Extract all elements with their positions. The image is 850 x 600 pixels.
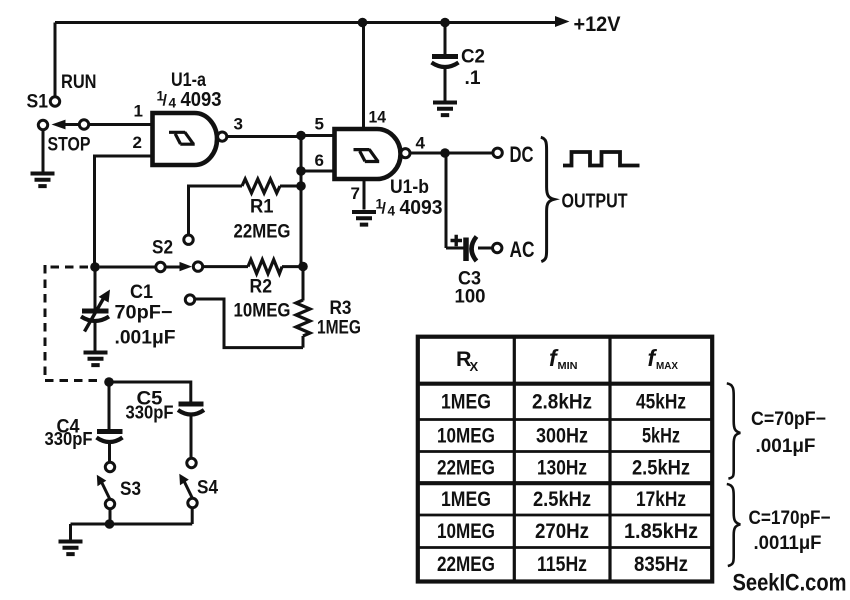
svg-text:5kHz: 5kHz bbox=[642, 425, 680, 448]
svg-text:4: 4 bbox=[169, 96, 177, 111]
svg-text:10MEG: 10MEG bbox=[234, 301, 291, 322]
svg-text:S2: S2 bbox=[152, 236, 173, 258]
svg-text:1MEG: 1MEG bbox=[441, 488, 491, 511]
svg-text:C2: C2 bbox=[461, 47, 485, 68]
svg-text:U1-b: U1-b bbox=[390, 177, 429, 198]
svg-text:14: 14 bbox=[369, 108, 387, 127]
svg-text:4: 4 bbox=[388, 204, 396, 219]
svg-text:2.5kHz: 2.5kHz bbox=[533, 488, 591, 511]
svg-text:.001μF: .001μF bbox=[756, 436, 816, 457]
svg-text:270Hz: 270Hz bbox=[535, 520, 589, 543]
svg-text:+12V: +12V bbox=[574, 13, 621, 36]
svg-text:RUN: RUN bbox=[61, 71, 97, 93]
svg-text:835Hz: 835Hz bbox=[634, 553, 688, 576]
svg-text:2.5kHz: 2.5kHz bbox=[632, 456, 690, 479]
svg-text:4093: 4093 bbox=[400, 197, 443, 219]
svg-text:MAX: MAX bbox=[656, 360, 678, 372]
svg-text:70pF−: 70pF− bbox=[115, 303, 173, 324]
svg-text:R1: R1 bbox=[250, 197, 274, 218]
svg-text:C1: C1 bbox=[130, 281, 153, 303]
svg-text:R3: R3 bbox=[330, 298, 352, 319]
svg-text:AC: AC bbox=[510, 237, 535, 262]
svg-text:17kHz: 17kHz bbox=[636, 488, 686, 511]
svg-text:1.85kHz: 1.85kHz bbox=[624, 520, 698, 543]
svg-text:7: 7 bbox=[351, 184, 360, 203]
svg-text:2.8kHz: 2.8kHz bbox=[532, 391, 592, 414]
svg-text:MIN: MIN bbox=[558, 360, 578, 372]
svg-text:10MEG: 10MEG bbox=[437, 425, 495, 448]
svg-text:S3: S3 bbox=[120, 478, 141, 500]
svg-text:/: / bbox=[163, 93, 168, 110]
svg-text:C=170pF−: C=170pF− bbox=[749, 508, 831, 529]
svg-text:2: 2 bbox=[133, 133, 142, 152]
svg-text:C=70pF−: C=70pF− bbox=[751, 409, 826, 430]
svg-text:22MEG: 22MEG bbox=[437, 456, 495, 479]
svg-text:300Hz: 300Hz bbox=[536, 425, 588, 448]
svg-text:R2: R2 bbox=[250, 277, 273, 298]
svg-text:1MEG: 1MEG bbox=[441, 391, 491, 414]
svg-text:45kHz: 45kHz bbox=[636, 391, 686, 414]
svg-text:OUTPUT: OUTPUT bbox=[562, 191, 628, 213]
svg-text:S4: S4 bbox=[197, 477, 218, 499]
svg-text:100: 100 bbox=[455, 286, 486, 308]
svg-text:U1-a: U1-a bbox=[171, 70, 206, 91]
svg-text:STOP: STOP bbox=[48, 134, 91, 156]
svg-text:130Hz: 130Hz bbox=[537, 456, 587, 479]
svg-text:/: / bbox=[382, 201, 387, 218]
svg-text:DC: DC bbox=[510, 142, 534, 167]
svg-text:.1: .1 bbox=[465, 68, 481, 89]
svg-text:4: 4 bbox=[416, 134, 426, 153]
svg-text:.001μF: .001μF bbox=[115, 328, 176, 349]
svg-text:S1: S1 bbox=[27, 91, 49, 113]
svg-text:3: 3 bbox=[234, 115, 243, 134]
svg-text:1MEG: 1MEG bbox=[317, 318, 361, 339]
svg-text:330pF: 330pF bbox=[126, 403, 174, 423]
svg-text:X: X bbox=[470, 359, 479, 374]
svg-text:1: 1 bbox=[134, 102, 143, 121]
svg-text:.0011μF: .0011μF bbox=[754, 533, 822, 554]
svg-text:5: 5 bbox=[315, 115, 324, 134]
svg-text:SeekIC.com: SeekIC.com bbox=[733, 570, 847, 597]
svg-text:4093: 4093 bbox=[181, 89, 222, 111]
svg-text:6: 6 bbox=[315, 151, 324, 170]
svg-text:115Hz: 115Hz bbox=[537, 553, 587, 576]
svg-text:22MEG: 22MEG bbox=[234, 222, 291, 243]
svg-text:22MEG: 22MEG bbox=[437, 553, 495, 576]
svg-text:10MEG: 10MEG bbox=[437, 520, 495, 543]
svg-text:330pF: 330pF bbox=[45, 429, 93, 449]
